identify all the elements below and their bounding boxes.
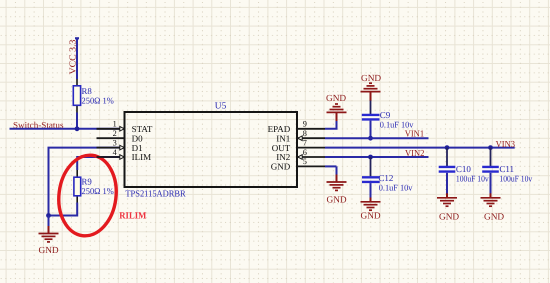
wire pin4 to R9 — [77, 157, 124, 170]
IC U5 TPS2115ADRBR — [125, 102, 298, 199]
resistor R9 — [74, 170, 115, 203]
ground C9 top — [361, 74, 382, 101]
svg-text:ILIM: ILIM — [132, 152, 152, 162]
pin 4 ILIM — [97, 148, 152, 162]
svg-text:100uF 10v: 100uF 10v — [456, 173, 489, 183]
svg-text:1: 1 — [113, 120, 117, 129]
svg-text:250Ω 1%: 250Ω 1% — [82, 186, 115, 196]
svg-text:TPS2115ADRBR: TPS2115ADRBR — [125, 189, 186, 199]
power VCC 3.3 — [68, 38, 79, 74]
capacitor C11 — [482, 148, 533, 194]
svg-text:2: 2 — [113, 129, 117, 138]
pin 6 IN2 — [276, 148, 325, 162]
wire R9 to GND column — [49, 203, 78, 216]
pin 8 IN1 — [276, 129, 325, 143]
svg-text:VIN3: VIN3 — [496, 139, 516, 149]
wire pin 9 to ground — [325, 121, 337, 129]
wire D1 to GND column — [49, 148, 125, 216]
node junction C10/OUT — [445, 145, 450, 150]
svg-text:3: 3 — [113, 138, 117, 147]
svg-text:GND: GND — [271, 162, 291, 172]
pin 2 D0 — [97, 129, 144, 143]
svg-text:9: 9 — [303, 120, 307, 129]
svg-text:GND: GND — [484, 213, 504, 223]
capacitor C12 — [362, 157, 413, 198]
svg-text:7: 7 — [303, 138, 307, 147]
node junction R8/pin1 — [75, 126, 80, 131]
ground bottom-left — [39, 216, 59, 257]
ground pin 9 — [326, 94, 347, 121]
node junction GND column — [46, 213, 51, 218]
wire IN2 / VIN2 — [325, 156, 429, 158]
pin 3 D1 — [97, 138, 143, 152]
svg-text:U5: U5 — [215, 102, 227, 112]
svg-text:GND: GND — [361, 212, 381, 222]
ground C12 — [361, 198, 381, 222]
svg-text:R9: R9 — [82, 177, 93, 187]
ground C11 — [481, 193, 505, 222]
capacitor C9 — [362, 101, 414, 139]
svg-text:GND: GND — [39, 246, 59, 256]
node junction C11/OUT — [488, 145, 493, 150]
wire R8 to node — [76, 113, 78, 129]
ground C10 — [437, 193, 459, 222]
svg-text:5: 5 — [303, 157, 307, 166]
pin 1 STAT — [97, 120, 153, 134]
capacitor C10 — [439, 148, 490, 194]
svg-text:250Ω 1%: 250Ω 1% — [82, 96, 115, 106]
wire IN1 / VIN1 — [325, 137, 429, 139]
pin 9 EPAD — [268, 120, 325, 134]
svg-text:VIN1: VIN1 — [405, 129, 425, 139]
svg-text:GND: GND — [327, 195, 347, 205]
pin 5 GND — [271, 157, 325, 171]
wire OUT / VIN3 — [325, 147, 515, 149]
svg-text:0.1uF 10v: 0.1uF 10v — [379, 182, 413, 192]
ground pin 5 — [325, 166, 347, 205]
svg-text:100uF 10v: 100uF 10v — [499, 173, 532, 183]
svg-text:R8: R8 — [82, 86, 93, 96]
node junction C12/IN2 — [368, 155, 373, 160]
wire Switch-Status to pin 1 — [10, 128, 125, 130]
svg-text:GND: GND — [326, 94, 346, 104]
annotation ellipse RILIM — [54, 152, 120, 239]
svg-text:8: 8 — [303, 129, 307, 138]
svg-text:RILIM: RILIM — [119, 211, 146, 222]
wire VCC to R8 — [76, 39, 78, 80]
resistor R8 — [73, 79, 114, 113]
pin 7 OUT — [272, 138, 325, 152]
svg-text:VIN2: VIN2 — [405, 148, 425, 158]
node junction C9/IN1 — [368, 136, 373, 141]
svg-text:GND: GND — [439, 213, 459, 223]
svg-text:6: 6 — [303, 148, 307, 157]
